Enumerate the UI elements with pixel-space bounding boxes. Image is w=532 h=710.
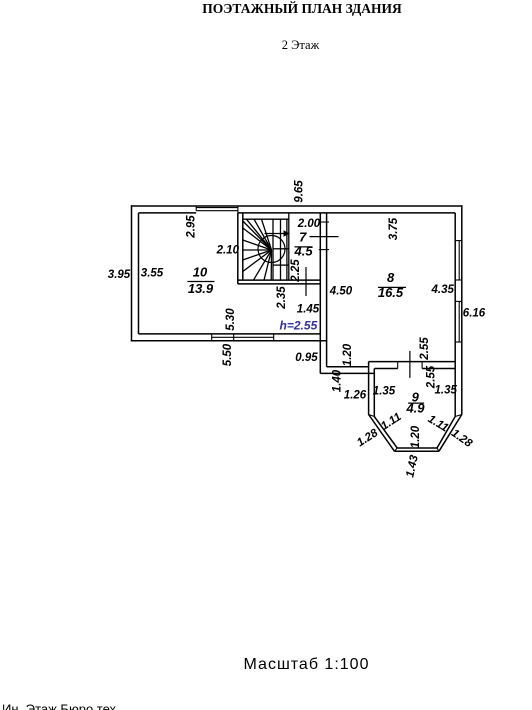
svg-text:3.75: 3.75 [388,217,400,240]
svg-text:1.40: 1.40 [332,369,344,392]
svg-text:1.20: 1.20 [410,425,422,448]
bay joint ticks [369,415,462,452]
wall top outer [131,205,463,207]
svg-text:4.9: 4.9 [405,401,425,416]
svg-text:5.30: 5.30 [225,308,237,331]
svg-text:8: 8 [387,270,395,285]
bay left diagonal outer [369,415,395,452]
room 8 fraction bar [378,286,406,288]
door jamb tick upper in wall 7/8 [319,221,329,223]
svg-text:1.43: 1.43 [404,454,421,479]
svg-text:2.10: 2.10 [216,245,240,257]
room 7 fraction bar [295,246,313,248]
svg-text:2.95: 2.95 [185,215,197,239]
bay right diagonal outer [439,415,462,452]
bay left wall outer [368,367,370,415]
wall right inner [454,213,456,417]
bay bottom wall inner [397,447,437,449]
bay left diagonal inner [374,417,397,449]
svg-text:1.26: 1.26 [344,390,367,402]
bay right diagonal inner [437,417,455,449]
svg-text:4.5: 4.5 [294,244,314,259]
svg-text:13.9: 13.9 [188,281,214,296]
svg-text:Масштаб 1:100: Масштаб 1:100 [244,656,370,673]
wall bottom room10 inner [139,333,321,335]
window W1 top wall [196,206,238,213]
svg-text:4.35: 4.35 [431,284,455,296]
svg-text:2.55: 2.55 [419,337,431,361]
stair box right edge [288,213,290,280]
svg-text:3.95: 3.95 [108,269,131,281]
room8/room9 wall bottom line segments with door opening [374,368,455,370]
stair enclosure left wall outer [237,213,239,284]
svg-text:9.65: 9.65 [294,180,306,203]
wall left outer [131,205,133,341]
stair enclosure left wall inner [242,213,244,280]
wall A exterior below room8 top line [327,366,369,368]
svg-text:6.16: 6.16 [463,308,486,320]
stair straight treads vertical [273,219,287,280]
svg-text:2.25: 2.25 [290,259,302,283]
wall top inner right segment [238,212,455,214]
wall between room7/8, right face [326,213,328,367]
door jamb tick lower in wall 7/8 [319,249,329,251]
room8 bottom inner line [369,361,456,363]
window W3 right wall upper [455,241,462,280]
svg-text:h=2.55: h=2.55 [280,319,318,333]
svg-text:1.28: 1.28 [355,427,381,450]
svg-text:1.35: 1.35 [435,385,458,397]
step between room8 bottom and wall A [368,362,370,367]
svg-text:2 Этаж: 2 Этаж [282,38,320,52]
svg-text:ПОЭТАЖНЫЙ ПЛАН ЗДАНИЯ: ПОЭТАЖНЫЙ ПЛАН ЗДАНИЯ [202,1,402,16]
svg-text:16.5: 16.5 [378,285,404,300]
wall left inner [138,213,140,334]
stair walk-line circle [258,236,285,263]
svg-text:10: 10 [193,265,208,280]
wall between room7/8 and corridor, left face [319,213,321,374]
stair winder fan lines [243,219,272,280]
wall bottom room10 outer [131,340,327,342]
bay left wall inner [373,369,375,417]
room 9 fraction bar [408,402,424,404]
svg-text:2.35: 2.35 [276,286,288,310]
svg-text:3.55: 3.55 [141,268,164,280]
stair enclosure bottom wall bottom line [238,283,320,285]
svg-text:0.95: 0.95 [295,352,318,364]
room7 leader line [310,236,339,238]
room 10 fraction bar [188,281,215,283]
corridor door tick [305,267,307,296]
wall right outer [461,205,463,414]
svg-text:1.11: 1.11 [379,411,404,433]
door jamb caps room9 [398,362,422,369]
stair enclosure bottom wall top line [238,279,320,281]
svg-text:1.35: 1.35 [373,386,396,398]
bay bottom wall outer [395,450,439,452]
svg-text:2.00: 2.00 [297,218,321,230]
stair direction arrow [265,230,290,237]
svg-text:Ин. Этаж Бюро тех: Ин. Этаж Бюро тех [2,702,117,710]
door tick room9 [409,351,411,378]
stair first tread line [243,218,289,220]
window W2 bottom wall [212,334,274,341]
svg-text:4.50: 4.50 [329,286,353,298]
svg-text:1.20: 1.20 [342,343,354,366]
svg-text:5.50: 5.50 [222,343,234,366]
window W4 right wall lower [455,301,462,342]
wall A exterior below room8 bottom line [320,372,374,374]
svg-text:1.28: 1.28 [449,427,475,450]
svg-text:1.45: 1.45 [297,304,320,316]
stair tread horizontals right run [273,249,289,265]
wall top inner left segment [139,212,197,214]
svg-text:7: 7 [299,230,307,245]
